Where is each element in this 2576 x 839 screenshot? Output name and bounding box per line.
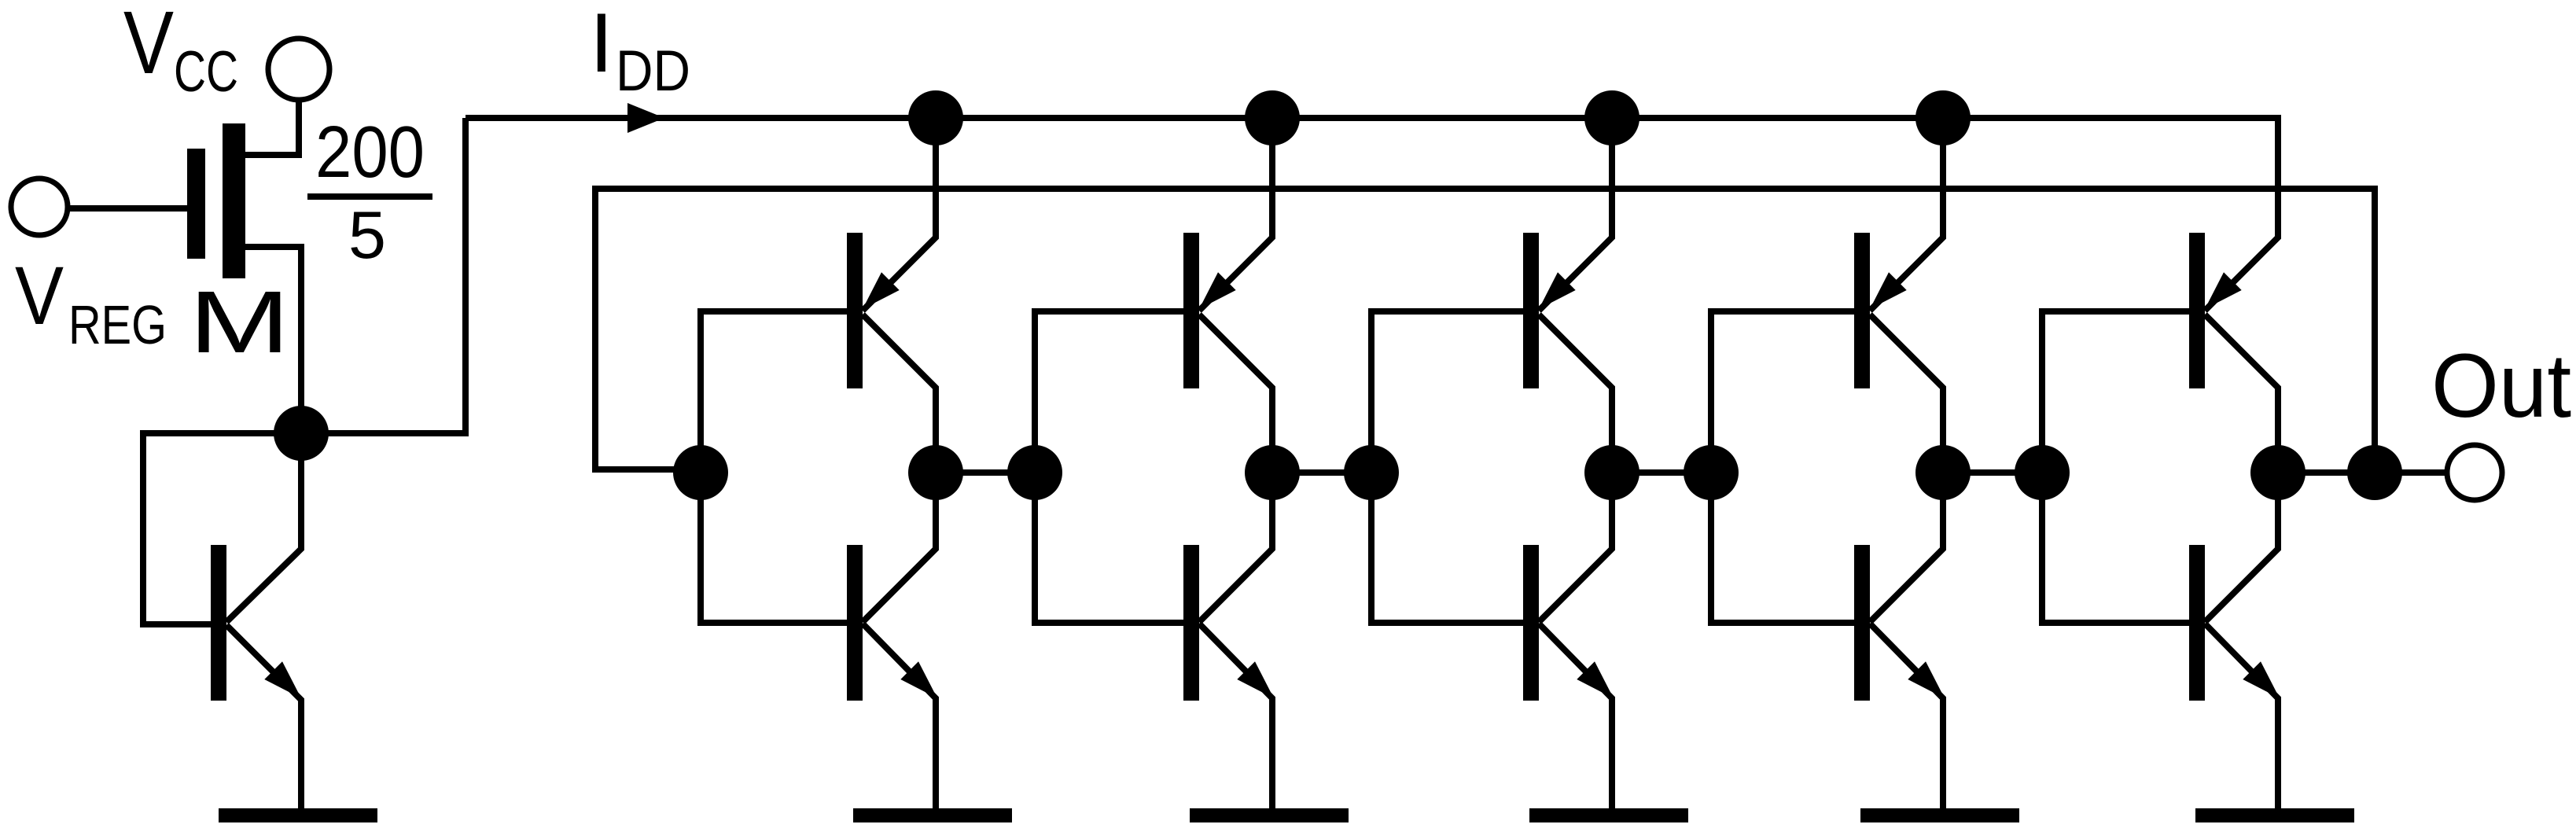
junction IDD rail stage 2 (1245, 90, 1300, 145)
wire base bus stage 1 (701, 311, 847, 623)
transistor Q1B (NPN, stage 1) (847, 473, 937, 810)
wire node 2 to stage 3 input (1272, 469, 1371, 476)
svg-text:5: 5 (348, 198, 386, 273)
junction IDD rail stage 4 (1915, 90, 1971, 145)
svg-text:DD: DD (616, 39, 690, 103)
junction stage 5 input node (2015, 445, 2070, 500)
svg-text:REG: REG (68, 294, 167, 355)
junction output node 4 (1915, 445, 1971, 500)
ground stage 5 (2195, 808, 2354, 822)
wire node 1 to stage 2 input (936, 469, 1035, 476)
wire base bus stage 3 (1371, 311, 1523, 623)
transistor Q5A (PNP, stage 5) (2189, 118, 2278, 473)
rail IDD (top supply rail) (466, 118, 2278, 237)
svg-text:V: V (15, 250, 64, 342)
wire node A to Q0 base (143, 433, 301, 624)
wire M source to mirror node A (245, 247, 301, 433)
svg-text:CC: CC (174, 40, 238, 104)
junction output node 1 (908, 445, 963, 500)
ground Q0 (219, 808, 377, 822)
junction output node 3 (1584, 445, 1639, 500)
transistor Q2B (NPN, stage 2) (1183, 473, 1274, 810)
wire node A to IDD rail (301, 118, 466, 433)
label VREG (15, 250, 167, 355)
transistor Q2A (PNP, stage 2) (1183, 118, 1272, 473)
value label 200/5 (307, 111, 432, 273)
wire base bus stage 5 (2042, 311, 2189, 623)
wire node 4 to stage 5 input (1943, 469, 2042, 476)
svg-text:I: I (590, 0, 613, 90)
current arrow IDD (627, 103, 664, 133)
wire node 5 to Out terminal (2278, 469, 2447, 476)
junction IDD rail stage 3 (1584, 90, 1639, 145)
wire node 3 to stage 4 input (1612, 469, 1711, 476)
junction stage 3 input node (1344, 445, 1399, 500)
svg-text:200: 200 (315, 111, 425, 193)
ground stage 1 (853, 808, 1012, 822)
wire base bus stage 2 (1035, 311, 1183, 623)
svg-text:Out: Out (2431, 336, 2571, 436)
terminal Out (2447, 445, 2502, 500)
junction stage 2 input node (1007, 445, 1062, 500)
ground stage 3 (1529, 808, 1688, 822)
transistor Q4A (PNP, stage 4) (1854, 118, 1943, 473)
junction Out node (2347, 445, 2402, 500)
junction stage 4 input node (1684, 445, 1739, 500)
feedback rail (Out to stage 1 input) (595, 189, 2375, 473)
junction IDD rail stage 1 (908, 90, 963, 145)
transistor Q0 (diode-connected NPN) (211, 433, 301, 810)
ground stage 2 (1190, 808, 1349, 822)
transistor Q3B (NPN, stage 3) (1523, 473, 1614, 810)
ground stage 4 (1860, 808, 2019, 822)
transistor M (MOSFET 200/5) (187, 123, 245, 278)
transistor Q3A (PNP, stage 3) (1523, 118, 1612, 473)
junction output node 5 (2250, 445, 2306, 500)
transistor Q5B (NPN, stage 5) (2189, 473, 2280, 810)
wire VREG to M gate (68, 205, 187, 212)
terminal VCC (268, 39, 329, 100)
transistor Q1A (PNP, stage 1) (847, 118, 936, 473)
label IDD (590, 0, 690, 103)
wire base bus stage 4 (1711, 311, 1854, 623)
terminal VREG (11, 178, 68, 235)
svg-text:V: V (123, 0, 174, 92)
junction node A (274, 406, 329, 461)
junction output node 2 (1245, 445, 1300, 500)
junction stage 1 input node (673, 445, 728, 500)
label VCC (123, 0, 238, 104)
wire VCC to M drain (245, 100, 299, 155)
svg-text:M: M (189, 273, 290, 371)
transistor Q4B (NPN, stage 4) (1854, 473, 1945, 810)
